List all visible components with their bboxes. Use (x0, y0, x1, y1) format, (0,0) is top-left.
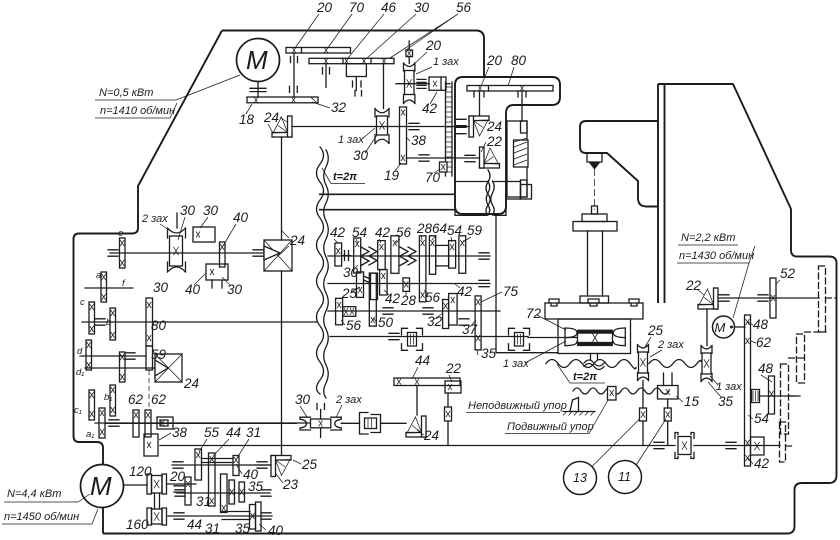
svg-text:15: 15 (684, 394, 700, 409)
vertical link from head to screw bracket (496, 215, 558, 352)
vertical rack (ladder) (446, 82, 453, 176)
svg-text:N=0,5 кВт: N=0,5 кВт (99, 87, 153, 99)
bevel 24 on y423 (406, 416, 426, 437)
gears shaft A (335, 243, 342, 266)
hanging gear under bar2 (346, 64, 366, 77)
svg-text:40: 40 (233, 210, 249, 225)
centerline dashed (594, 169, 596, 210)
svg-text:M: M (715, 320, 726, 335)
svg-text:44: 44 (226, 425, 241, 440)
tall bar 37/75 (475, 296, 481, 350)
svg-text:24: 24 (423, 428, 439, 443)
svg-text:N=2,2 кВт: N=2,2 кВт (681, 232, 735, 244)
svg-text:24: 24 (289, 233, 305, 248)
worm hatched (514, 138, 529, 167)
svg-text:t=2π: t=2π (573, 371, 597, 383)
bevel 24 left (272, 116, 292, 137)
svg-text:19: 19 (384, 168, 400, 183)
small bar between (220, 242, 226, 267)
svg-text:c: c (80, 297, 85, 308)
svg-text:24: 24 (486, 119, 502, 134)
svg-text:b: b (106, 317, 111, 328)
vertical shaft down from bevel24mid (281, 271, 283, 455)
shaft y288 stub (85, 287, 133, 289)
svg-text:54: 54 (352, 225, 367, 240)
svg-text:50: 50 (378, 315, 394, 330)
svg-text:28: 28 (416, 221, 433, 236)
gear rect 30 upper (193, 227, 215, 242)
bar 44 assembly above (394, 378, 460, 386)
shaft B y283 (328, 283, 490, 285)
svg-text:35: 35 (481, 346, 497, 361)
svg-text:30: 30 (153, 280, 169, 295)
svg-text:2 зах: 2 зах (141, 213, 168, 225)
svg-text:70: 70 (349, 0, 365, 15)
svg-text:160: 160 (126, 517, 149, 532)
svg-text:2 зах: 2 зах (657, 339, 684, 351)
svg-text:c₁: c₁ (74, 405, 82, 416)
bed box with break (455, 182, 506, 216)
svg-text:24: 24 (263, 110, 279, 125)
svg-text:22: 22 (486, 134, 503, 149)
shaft A y256 (328, 255, 490, 257)
head vertical shafts (480, 91, 523, 121)
dashed ghost gears (780, 266, 837, 462)
gear bar c1 (89, 390, 95, 420)
fixed stop symbol (570, 398, 579, 412)
svg-text:M: M (246, 45, 268, 75)
pulley bar2 (309, 58, 394, 63)
svg-text:80: 80 (151, 318, 167, 333)
motor1 shaft down (257, 82, 259, 98)
svg-text:d: d (77, 346, 83, 357)
svg-text:59: 59 (467, 223, 483, 238)
gearbox 42 (429, 77, 446, 90)
gears shaft C (336, 298, 343, 325)
svg-text:20: 20 (169, 469, 186, 484)
svg-text:40: 40 (185, 282, 201, 297)
vertical long shaft from bevel24 (281, 137, 283, 240)
saddle housing (558, 319, 631, 354)
svg-text:n=1430 об/мин: n=1430 об/мин (679, 250, 754, 262)
xbox on shaft y423 (157, 417, 173, 429)
shaft y298 (718, 297, 819, 299)
svg-text:30: 30 (180, 203, 196, 218)
svg-text:e: e (118, 228, 123, 239)
svg-text:38: 38 (172, 425, 188, 440)
svg-text:62: 62 (128, 392, 144, 407)
shaft D y336.5 (330, 336, 528, 338)
bevel 22 head (480, 147, 500, 168)
svg-text:40: 40 (268, 523, 284, 538)
spool 1zax (375, 109, 389, 118)
svg-text:20: 20 (425, 38, 442, 53)
svg-text:a₁: a₁ (86, 429, 94, 440)
bevel 24 M2 square (155, 354, 182, 382)
shaft y368 (85, 367, 155, 369)
screw shaft into nut (528, 337, 577, 339)
svg-text:20: 20 (316, 0, 333, 15)
svg-text:54: 54 (754, 411, 769, 426)
svg-text:11: 11 (618, 470, 631, 484)
svg-text:25: 25 (341, 286, 358, 301)
svg-text:42: 42 (375, 225, 391, 240)
svg-text:25: 25 (647, 323, 664, 338)
svg-text:70: 70 (425, 170, 441, 185)
svg-text:1 зах: 1 зах (433, 56, 459, 68)
circles 13 / 11 (564, 462, 597, 495)
column (658, 84, 665, 303)
belt fork ticks (290, 57, 362, 97)
head shaft bar 20/80 (467, 86, 553, 92)
svg-text:20: 20 (486, 53, 503, 68)
svg-text:22: 22 (445, 361, 462, 376)
svg-text:37: 37 (462, 322, 478, 337)
bottom pulley bar 18/32 (247, 97, 318, 103)
svg-text:48: 48 (753, 317, 769, 332)
svg-text:56: 56 (425, 290, 441, 305)
table base (545, 303, 643, 319)
svg-text:31: 31 (205, 521, 220, 536)
gears shaft B (357, 272, 364, 298)
svg-text:32: 32 (331, 100, 347, 115)
svg-text:30: 30 (295, 392, 311, 407)
gear bar 38/19 (400, 107, 407, 164)
dashed link down (148, 370, 150, 410)
gearbox 120/160 (147, 474, 152, 494)
gear bar 31a (185, 477, 191, 505)
svg-text:30: 30 (353, 148, 369, 163)
box 42 on bottom shaft (751, 437, 765, 455)
verticals from pulleys (294, 53, 384, 109)
svg-text:N=4,4 кВт: N=4,4 кВт (7, 488, 61, 500)
spool 25/2zax (638, 345, 649, 353)
spool 20 body (404, 63, 415, 71)
svg-text:23: 23 (282, 477, 299, 492)
svg-text:Подвижный упор: Подвижный упор (507, 421, 594, 433)
svg-text:30: 30 (414, 0, 430, 15)
svg-text:25: 25 (301, 457, 318, 472)
svg-text:42: 42 (754, 456, 770, 471)
svg-text:35: 35 (248, 479, 264, 494)
machine body outline (222, 31, 484, 78)
box 70 (440, 162, 448, 172)
svg-text:44: 44 (187, 517, 202, 532)
bevel 22 right (698, 288, 718, 309)
svg-text:b₁: b₁ (104, 392, 112, 403)
coupling right of spool (409, 123, 419, 129)
shaft C y311 (328, 310, 500, 312)
svg-text:t=2π: t=2π (333, 171, 357, 183)
gear bar d (86, 340, 92, 370)
shaft y423 (95, 422, 310, 424)
gear rect 40 lower (206, 264, 228, 280)
svg-text:62: 62 (151, 392, 167, 407)
wavy below bevel22 (486, 170, 490, 215)
svg-text:a: a (96, 270, 101, 281)
tool arm (580, 121, 658, 207)
svg-text:64: 64 (432, 221, 447, 236)
gear bar 59 (146, 346, 153, 370)
svg-text:M: M (90, 471, 112, 501)
svg-text:72: 72 (526, 306, 542, 321)
svg-text:59: 59 (151, 347, 167, 362)
xbox brackets on shaft D (402, 328, 423, 350)
gear head housing (455, 77, 560, 214)
shaft y126.5 (292, 126, 469, 128)
svg-text:d₁: d₁ (76, 367, 84, 378)
gear bar a (101, 272, 107, 302)
box 38 (144, 434, 158, 456)
bed double lines (319, 194, 455, 209)
top pulley bar1 (286, 48, 351, 54)
bottom shaft couplings and boxes (654, 442, 664, 448)
nut spool on y423 (300, 417, 311, 430)
bevel 23/25 (271, 456, 291, 477)
shaft y356 (80, 355, 146, 357)
svg-text:44: 44 (415, 353, 430, 368)
svg-text:n=1410 об/мин: n=1410 об/мин (100, 105, 175, 117)
svg-text:80: 80 (511, 53, 527, 68)
svg-text:56: 56 (346, 318, 362, 333)
shaft y158 (407, 157, 480, 159)
gear bar a1 (99, 408, 105, 438)
svg-text:1 зах: 1 зах (716, 381, 742, 393)
cluster bars (195, 449, 202, 480)
gear bar 80 (146, 298, 153, 346)
shaft y253 (110, 252, 272, 254)
svg-text:31: 31 (246, 425, 261, 440)
hanger + wave break below saddle (591, 354, 598, 360)
gear bar c (89, 302, 95, 334)
svg-text:n=1450 об/мин: n=1450 об/мин (4, 511, 79, 523)
svg-text:Неподвижный упор: Неподвижный упор (468, 400, 567, 412)
gear bar e/f (120, 238, 126, 268)
motor M2 (713, 316, 735, 338)
svg-text:56: 56 (396, 225, 412, 240)
svg-text:31: 31 (196, 494, 211, 509)
svg-text:120: 120 (129, 464, 152, 479)
svg-text:42: 42 (330, 225, 346, 240)
box coupling on y423 (360, 413, 381, 435)
workpiece arbor (592, 206, 598, 214)
bevel 24 head (469, 116, 489, 137)
gear bars 62 62 (133, 410, 139, 437)
gear bar b1 (110, 385, 116, 416)
spindle nose + tool (587, 153, 602, 162)
movable stop box (608, 387, 617, 401)
svg-text:38: 38 (411, 133, 427, 148)
spool 35/1zax (701, 346, 712, 354)
48 second bar + pinion (769, 376, 775, 414)
shaft y322 (82, 321, 317, 323)
lead screw wavy t=2pi (546, 360, 636, 369)
svg-text:42: 42 (422, 101, 438, 116)
gear bar d1 (120, 352, 126, 382)
svg-text:54: 54 (447, 223, 462, 238)
shafts of bottom cluster (167, 483, 197, 485)
second wavy feed (573, 388, 669, 394)
svg-text:13: 13 (573, 471, 587, 485)
svg-text:56: 56 (456, 0, 472, 15)
svg-text:46: 46 (381, 0, 397, 15)
worm 15 (658, 386, 679, 400)
verticals to small gears (643, 381, 668, 409)
spool 2zax left (176, 213, 178, 228)
gear 52 (770, 278, 776, 318)
svg-text:48: 48 (758, 361, 774, 376)
bevel 24 mid frame (264, 240, 292, 271)
motor M3 (81, 465, 124, 508)
worm frame (507, 121, 527, 197)
svg-text:28: 28 (400, 293, 417, 308)
coupling 18 (250, 88, 266, 91)
svg-text:55: 55 (204, 425, 220, 440)
svg-text:1 зах: 1 зах (338, 134, 364, 146)
gear bar b (110, 308, 116, 340)
svg-text:18: 18 (239, 112, 255, 127)
svg-text:2 зах: 2 зах (335, 394, 362, 406)
lead screw nut 72 (578, 330, 613, 333)
motor M1 (237, 39, 280, 82)
coupling before bevel (253, 250, 263, 256)
svg-text:24: 24 (183, 376, 199, 391)
svg-text:62: 62 (756, 335, 772, 350)
svg-text:52: 52 (780, 266, 796, 281)
svg-text:42: 42 (457, 284, 473, 299)
couplings left cluster (108, 250, 118, 256)
svg-text:75: 75 (503, 284, 519, 299)
svg-text:32: 32 (427, 314, 443, 329)
spool 20 (top) small box (406, 50, 413, 57)
svg-text:35: 35 (235, 521, 251, 536)
svg-text:1 зах: 1 зах (503, 358, 529, 370)
shaft y84 (396, 83, 429, 85)
svg-text:30: 30 (203, 203, 219, 218)
tall gear column 48/62/54/42 (745, 315, 751, 466)
